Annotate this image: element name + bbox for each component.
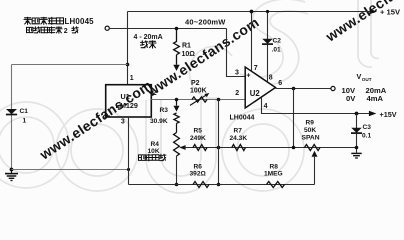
svg-text:0.1: 0.1 — [362, 132, 371, 139]
svg-text:R1: R1 — [182, 42, 191, 49]
node P2 rail / inverting column — [217, 98, 221, 102]
svg-text:V: V — [357, 72, 362, 81]
svg-text:U1: U1 — [121, 92, 130, 101]
potentiometer R4 — [174, 133, 180, 157]
gray watermark arc — [189, 46, 232, 98]
node ground-left junction — [10, 168, 14, 172]
svg-text:U2: U2 — [250, 89, 261, 98]
wire bottom rail — [129, 184, 315, 186]
resistor R7 — [232, 145, 246, 151]
svg-text:6: 6 — [278, 80, 282, 87]
node P2 rail / R3 column — [175, 98, 179, 102]
wire mid gain rail — [185, 147, 357, 149]
wire input drop to U2 pin3 — [227, 29, 246, 77]
node output — [292, 87, 296, 91]
svg-text:1MEG: 1MEG — [264, 171, 283, 178]
svg-text:+ 15V: + 15V — [380, 8, 401, 17]
voltage reference U1 box — [106, 85, 152, 117]
capacitor C3 — [351, 128, 362, 133]
resistor R5 — [193, 145, 207, 151]
wire U2 pin4 to +15V — [262, 97, 371, 113]
node mid rail / C3 column — [355, 146, 359, 150]
node pin7 top rail — [250, 10, 254, 14]
resistor R3 — [174, 113, 179, 123]
wire inverting column — [218, 100, 220, 185]
svg-text:4: 4 — [264, 103, 268, 110]
gray watermark letter o3 — [222, 109, 304, 191]
svg-text:30.9K: 30.9K — [150, 118, 168, 125]
svg-text:0V: 0V — [346, 94, 356, 103]
node C3 top — [355, 112, 359, 116]
node R1 top — [175, 27, 179, 31]
svg-text:R9: R9 — [306, 120, 315, 127]
wire bottom-left rail — [12, 169, 129, 171]
svg-text:C3: C3 — [363, 124, 372, 131]
sensor note line2 CJK — [27, 27, 63, 33]
label input CJK — [141, 41, 157, 48]
wire U2 output — [276, 88, 331, 90]
P2 wiper arrow — [190, 95, 207, 106]
node U1 pin1 junction — [126, 63, 130, 67]
potentiometer P2 — [192, 97, 207, 102]
sensor note line2 CJK last — [72, 27, 78, 33]
svg-text:+: + — [246, 72, 250, 79]
svg-text:249K: 249K — [190, 135, 206, 142]
wire output feedback drop — [293, 89, 295, 148]
node mid rail / output column — [292, 146, 296, 150]
gray watermark letter l — [358, 0, 379, 67]
svg-text:7: 7 — [254, 65, 258, 72]
svg-text:R6: R6 — [194, 164, 203, 171]
svg-text:OUT: OUT — [362, 77, 372, 82]
svg-text:4 - 20mA: 4 - 20mA — [134, 34, 163, 41]
current arrow at R1 — [173, 65, 179, 71]
op-amp U2 — [245, 67, 275, 108]
wire R3 column top — [176, 100, 178, 106]
wire R4 to bottom rail — [176, 156, 178, 185]
resistor R6 — [193, 182, 209, 188]
wire left horizontal — [12, 64, 128, 66]
svg-text:C1: C1 — [20, 108, 29, 115]
capacitor C1 — [6, 109, 17, 114]
svg-text:24.3K: 24.3K — [230, 135, 248, 142]
svg-text:4mA: 4mA — [367, 94, 384, 103]
current arrow at R3 — [174, 106, 180, 112]
R4 wiper arrow — [179, 145, 185, 150]
svg-text:10K: 10K — [148, 148, 160, 155]
wire R3 to R4 — [176, 123, 178, 132]
svg-text:LH0045: LH0045 — [65, 17, 95, 26]
svg-text:C2: C2 — [273, 38, 282, 45]
wire C2 pin8 column — [267, 12, 269, 82]
label R4 CJK zero-adjust — [139, 154, 166, 161]
gray watermark letter o — [0, 102, 69, 188]
svg-text:2: 2 — [235, 90, 239, 97]
svg-text:2: 2 — [153, 90, 157, 97]
ground right — [351, 153, 361, 158]
node bottom rail / R4 column — [175, 183, 179, 187]
gray watermark letter U — [146, 100, 216, 193]
svg-text:SPAN: SPAN — [302, 135, 320, 142]
wire left vertical — [11, 65, 13, 171]
wire 4-20mA input — [109, 28, 226, 30]
node bottom rail / inverting column — [217, 183, 221, 187]
wire U2 pin7 supply — [251, 12, 253, 71]
svg-text:LH0044: LH0044 — [230, 114, 255, 121]
sensor note line1 CJK — [24, 17, 64, 24]
R9 wiper arrow — [314, 157, 316, 185]
+15V arrow top — [370, 9, 378, 14]
svg-text:50K: 50K — [304, 127, 316, 134]
wire U1 pin2 rail to U2 inverting input — [151, 99, 245, 101]
svg-text:P2: P2 — [191, 80, 200, 87]
svg-text:+15V: +15V — [380, 110, 397, 119]
svg-text:R3: R3 — [160, 107, 169, 114]
svg-text:.01: .01 — [272, 47, 281, 54]
svg-text:2: 2 — [64, 28, 68, 35]
ground left — [5, 170, 18, 181]
svg-text:40~200mW: 40~200mW — [185, 17, 226, 26]
svg-text:1: 1 — [130, 75, 134, 82]
svg-text:392Ω: 392Ω — [190, 171, 207, 178]
+15V arrow mid — [369, 111, 377, 116]
output terminal circle — [331, 86, 335, 90]
svg-text:R8: R8 — [270, 164, 279, 171]
svg-text:3: 3 — [121, 119, 125, 126]
resistor R1 — [174, 29, 180, 65]
svg-text:10Ω: 10Ω — [182, 51, 196, 58]
svg-text:3: 3 — [235, 69, 239, 76]
svg-text:R4: R4 — [151, 141, 160, 148]
node C2 top rail — [266, 10, 269, 13]
capacitor C2 — [262, 39, 273, 44]
resistor R8 — [267, 182, 285, 188]
sensor terminal circle — [105, 26, 109, 30]
svg-text:100K: 100K — [190, 87, 207, 94]
svg-text:8: 8 — [269, 74, 273, 81]
gray watermark letter S — [240, 0, 308, 85]
node mid rail / inverting column — [217, 146, 221, 150]
gray watermark letter o2 — [56, 109, 138, 191]
wire U1 pin3 down — [128, 117, 130, 185]
node tee at pin3 column — [127, 168, 130, 171]
potentiometer R9 — [305, 145, 321, 151]
svg-text:R7: R7 — [234, 128, 243, 135]
svg-text:1: 1 — [23, 118, 27, 125]
svg-text:R5: R5 — [194, 128, 203, 135]
svg-text:LM129: LM129 — [116, 101, 138, 110]
wire vertical from top rail down to U1 pin1 — [127, 12, 129, 86]
wire C3 column — [356, 114, 358, 153]
wire top +15V rail — [128, 11, 371, 13]
